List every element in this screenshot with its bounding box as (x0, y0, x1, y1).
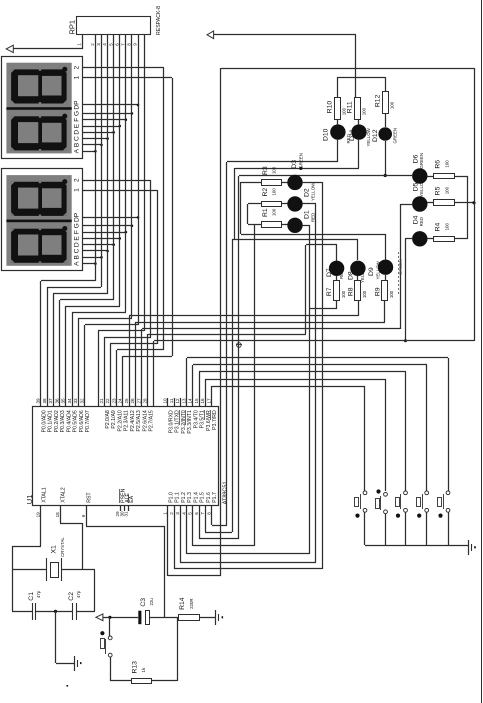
svg-text:P1.5: P1.5 (200, 492, 206, 503)
svg-text:R6: R6 (435, 160, 442, 169)
svg-text:P1.0: P1.0 (168, 492, 174, 503)
svg-text:2: 2 (73, 178, 80, 182)
svg-text:P0.0/AD0: P0.0/AD0 (42, 410, 48, 432)
svg-text:R7: R7 (326, 287, 333, 296)
svg-text:9: 9 (81, 514, 86, 517)
svg-text:6: 6 (194, 512, 199, 515)
svg-text:15: 15 (194, 398, 199, 404)
svg-text:8: 8 (206, 512, 211, 515)
svg-text:39: 39 (36, 398, 41, 404)
svg-text:P0.6/AD6: P0.6/AD6 (79, 410, 85, 432)
svg-text:22u: 22u (149, 598, 154, 606)
svg-text:RED: RED (419, 217, 424, 226)
svg-text:D: D (73, 242, 80, 247)
svg-text:14: 14 (188, 398, 193, 404)
svg-text:P1.1: P1.1 (175, 492, 181, 503)
svg-text:F: F (73, 118, 80, 122)
svg-text:13: 13 (181, 398, 186, 404)
svg-text:P3.2/INT0: P3.2/INT0 (181, 410, 187, 433)
svg-text:47p: 47p (76, 590, 81, 598)
svg-text:P3.0/RXD: P3.0/RXD (168, 410, 174, 433)
svg-text:47p: 47p (36, 590, 41, 598)
svg-text:2: 2 (73, 66, 80, 70)
svg-text:P3.6/WR: P3.6/WR (206, 410, 212, 431)
svg-text:P1.4: P1.4 (193, 492, 199, 503)
svg-text:YELLOW: YELLOW (311, 182, 316, 201)
svg-text:18: 18 (55, 512, 60, 518)
svg-text:P1.7: P1.7 (212, 492, 218, 503)
svg-text:AT89C51: AT89C51 (222, 481, 228, 504)
svg-text:P2.4/A12: P2.4/A12 (130, 410, 136, 431)
svg-text:P2.2/A10: P2.2/A10 (117, 410, 123, 431)
svg-text:34: 34 (67, 398, 72, 404)
svg-text:R8: R8 (347, 287, 354, 296)
svg-text:RP1: RP1 (68, 20, 77, 35)
svg-text:P2.0/A8: P2.0/A8 (105, 410, 111, 429)
svg-text:U1: U1 (25, 495, 34, 505)
svg-text:R14: R14 (179, 597, 186, 610)
svg-text:3: 3 (175, 512, 180, 515)
svg-text:XTAL1: XTAL1 (41, 487, 47, 503)
svg-text:YELLOW: YELLOW (375, 260, 380, 279)
svg-text:R10: R10 (327, 101, 334, 114)
svg-text:D11: D11 (349, 129, 356, 141)
svg-text:P0.4/AD4: P0.4/AD4 (67, 410, 73, 432)
svg-text:22: 22 (105, 398, 110, 404)
svg-text:RED: RED (339, 270, 344, 279)
svg-text:3: 3 (96, 43, 101, 46)
svg-text:YELLOW: YELLOW (419, 178, 424, 197)
svg-text:CRYSTAL: CRYSTAL (60, 537, 65, 557)
svg-text:11: 11 (169, 398, 174, 403)
svg-text:2: 2 (90, 43, 95, 46)
svg-text:GREEN: GREEN (398, 259, 403, 275)
svg-text:C: C (73, 248, 80, 253)
svg-text:GREEN: GREEN (419, 153, 424, 169)
svg-text:1: 1 (73, 75, 80, 79)
svg-text:7: 7 (120, 43, 125, 46)
svg-text:RST: RST (87, 492, 93, 503)
svg-text:36: 36 (54, 398, 59, 404)
svg-text:220R: 220R (189, 598, 194, 609)
svg-text:C: C (73, 136, 80, 141)
svg-text:2: 2 (169, 512, 174, 515)
svg-text:P1.6: P1.6 (206, 492, 212, 503)
svg-text:D10: D10 (322, 128, 329, 141)
svg-text:D: D (73, 130, 80, 135)
svg-text:R9: R9 (374, 287, 381, 296)
svg-text:A: A (73, 148, 80, 153)
svg-text:D8: D8 (347, 271, 354, 280)
svg-text:33: 33 (73, 398, 78, 404)
svg-text:R1: R1 (262, 208, 269, 217)
svg-text:31: 31 (124, 511, 129, 517)
svg-text:G: G (73, 223, 80, 228)
svg-text:38: 38 (42, 398, 47, 404)
svg-text:P0.3/AD3: P0.3/AD3 (60, 410, 66, 432)
svg-text:DP: DP (73, 100, 80, 110)
svg-text:9: 9 (133, 43, 138, 46)
svg-text:P0.5/AD5: P0.5/AD5 (73, 410, 79, 432)
svg-text:26: 26 (130, 398, 135, 404)
svg-text:4: 4 (102, 43, 107, 46)
svg-text:R13: R13 (131, 661, 138, 674)
svg-text:P1.2: P1.2 (181, 492, 187, 503)
svg-text:1: 1 (163, 512, 168, 515)
svg-text:E: E (73, 123, 80, 128)
svg-text:21: 21 (99, 398, 104, 404)
svg-text:7: 7 (200, 512, 205, 515)
svg-text:X1: X1 (50, 545, 57, 554)
svg-text:R4: R4 (435, 222, 442, 231)
svg-text:6: 6 (114, 43, 119, 46)
svg-text:100: 100 (341, 290, 346, 298)
svg-text:F: F (73, 230, 80, 234)
svg-text:P3.3/INT1: P3.3/INT1 (187, 410, 193, 433)
svg-text:100: 100 (362, 290, 367, 298)
svg-text:35: 35 (61, 398, 66, 404)
svg-text:R12: R12 (375, 94, 382, 107)
svg-text:R5: R5 (435, 186, 442, 195)
svg-text:C2: C2 (68, 592, 75, 601)
svg-text:XTAL2: XTAL2 (61, 487, 67, 503)
svg-text:100: 100 (272, 208, 277, 216)
svg-text:R3: R3 (262, 166, 269, 175)
svg-text:B: B (73, 255, 80, 260)
svg-text:1: 1 (73, 188, 80, 192)
svg-text:100: 100 (390, 101, 395, 109)
svg-text:27: 27 (137, 398, 142, 404)
svg-text:G: G (73, 111, 80, 116)
svg-text:A: A (73, 261, 80, 266)
svg-text:D3: D3 (291, 160, 298, 169)
svg-text:4: 4 (181, 512, 186, 515)
svg-text:EA: EA (129, 495, 135, 502)
svg-text:P3.7/RD: P3.7/RD (212, 410, 218, 430)
svg-text:32: 32 (79, 398, 84, 404)
svg-text:RED: RED (311, 213, 316, 222)
svg-text:100: 100 (389, 290, 394, 298)
svg-text:25: 25 (124, 398, 129, 404)
svg-text:GREEN: GREEN (298, 153, 303, 169)
svg-text:5: 5 (108, 43, 113, 46)
svg-text:16: 16 (200, 398, 205, 404)
svg-text:P0.7/AD7: P0.7/AD7 (85, 410, 91, 432)
svg-text:1k: 1k (141, 667, 146, 672)
svg-text:D7: D7 (326, 268, 333, 277)
svg-text:P0.1/AD1: P0.1/AD1 (48, 410, 54, 432)
svg-text:100: 100 (361, 107, 366, 115)
svg-text:10: 10 (163, 398, 168, 404)
svg-text:100: 100 (272, 188, 277, 196)
svg-text:D12: D12 (372, 129, 379, 142)
svg-text:37: 37 (48, 398, 53, 404)
svg-text:P2.1/A9: P2.1/A9 (111, 410, 117, 429)
svg-text:R11: R11 (347, 101, 354, 113)
svg-text:C3: C3 (140, 598, 147, 607)
svg-text:P2.3/A11: P2.3/A11 (124, 410, 130, 431)
svg-text:R2: R2 (262, 188, 269, 197)
svg-text:100: 100 (444, 186, 449, 194)
svg-text:D9: D9 (368, 267, 375, 276)
svg-text:24: 24 (118, 398, 123, 404)
svg-text:P1.3: P1.3 (187, 492, 193, 503)
svg-text:100: 100 (444, 160, 449, 168)
svg-text:12: 12 (175, 398, 180, 404)
svg-text:100: 100 (272, 166, 277, 174)
svg-text:5: 5 (188, 512, 193, 515)
svg-text:100: 100 (444, 223, 449, 231)
svg-text:P2.6/A14: P2.6/A14 (142, 410, 148, 431)
svg-text:P3.4/T0: P3.4/T0 (193, 410, 199, 428)
svg-text:8: 8 (127, 43, 132, 46)
svg-text:E: E (73, 236, 80, 241)
svg-text:GREEN: GREEN (393, 128, 398, 144)
svg-text:C1: C1 (28, 592, 35, 601)
svg-text:B: B (73, 142, 80, 147)
svg-text:P0.2/AD2: P0.2/AD2 (54, 410, 60, 432)
svg-text:RESPACK-8: RESPACK-8 (156, 6, 162, 35)
svg-text:DP: DP (73, 212, 80, 222)
svg-text:P2.7/A15: P2.7/A15 (149, 410, 155, 431)
svg-text:P2.5/A13: P2.5/A13 (136, 410, 142, 431)
svg-text:23: 23 (112, 398, 117, 404)
svg-text:1: 1 (77, 43, 82, 46)
svg-text:17: 17 (206, 398, 211, 404)
svg-text:YELLOW: YELLOW (366, 127, 371, 146)
